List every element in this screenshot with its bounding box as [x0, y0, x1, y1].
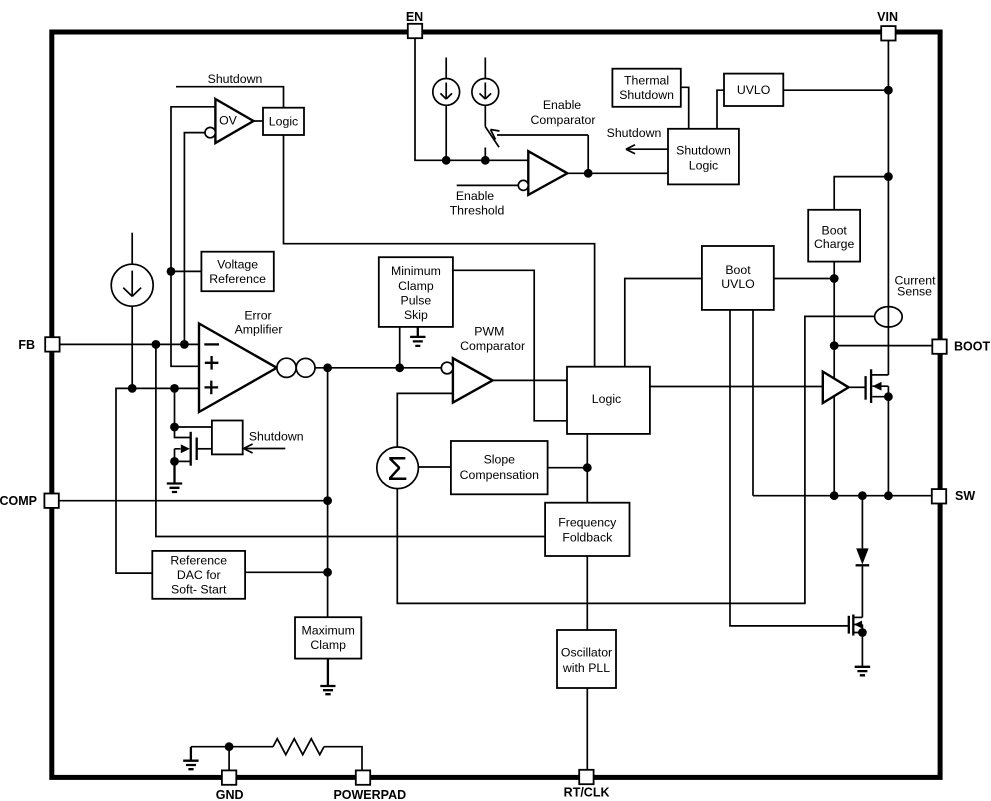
box: main Logic: [567, 367, 650, 434]
wire: current source I1 bottom lead: [131, 306, 133, 388]
svg-text:Error: Error: [244, 309, 271, 323]
summing node (slope compensation adder): [377, 447, 419, 489]
transistor Q3 (low-side FET): [849, 615, 867, 667]
transistor Q1 (soft-start shutdown FET): [170, 388, 212, 465]
node: minimum clamp junction: [395, 363, 404, 372]
wire: main Logic output to gate driver: [650, 386, 823, 388]
node: enable comparator output junction: [584, 169, 593, 178]
box: Minimum Clamp Pulse Skip: [379, 257, 453, 327]
node: VIN-UVLO junction: [884, 86, 893, 95]
ground: GND pin ground: [183, 747, 198, 770]
svg-text:Shutdown: Shutdown: [619, 88, 674, 102]
node: reference junction: [167, 267, 176, 276]
wire: Boot Charge top to VIN rail: [834, 177, 888, 210]
box: Oscillator with PLL: [557, 630, 616, 688]
wire: SW rail: [753, 495, 932, 497]
node: BootUVLO-BootCharge junction: [830, 274, 839, 283]
wire: enable comparator feedback to switch with arrowhead: [497, 134, 588, 136]
wire: UVLO to VIN rail: [783, 89, 888, 91]
wire: Boot UVLO left output down to main Logic top: [625, 279, 702, 367]
node: reference DAC junction: [323, 568, 332, 577]
node: SW junction diode: [858, 491, 867, 500]
ground: shutdown FET ground: [167, 461, 182, 492]
svg-text:Clamp: Clamp: [398, 279, 434, 293]
wire: current source I3 top lead: [484, 58, 486, 79]
svg-text:Enable: Enable: [543, 98, 581, 112]
node: enable switch junction: [481, 156, 490, 165]
wire: switch bottom contact: [484, 148, 486, 161]
svg-text:Slope: Slope: [484, 453, 516, 467]
wire: Boot UVLO right to boot rail: [774, 278, 834, 280]
node: enable current source 1 junction: [442, 156, 451, 165]
node: FB to OV tap: [180, 340, 189, 349]
ground: maximum clamp ground: [320, 659, 335, 695]
svg-text:RT/CLK: RT/CLK: [564, 786, 610, 800]
wire: Frequency Foldback to Oscillator: [586, 556, 588, 630]
error amplifier U1: [199, 324, 277, 413]
wire: main Logic bottom to Frequency Foldback: [586, 434, 588, 503]
wire: shutdown output arrow from Shutdown Logic: [627, 148, 668, 150]
transistor Q2 (high-side power FET): [866, 369, 893, 495]
wire: Boot UVLO bottom to low-side FET gate: [730, 310, 848, 626]
ground: minimum clamp ground: [410, 327, 425, 346]
wire: current source I2 bottom lead: [445, 105, 447, 160]
wire: COMP riser from error amp output to Maximum Clamp: [327, 368, 329, 617]
svg-text:POWERPAD: POWERPAD: [333, 788, 406, 801]
svg-text:with PLL: with PLL: [562, 661, 610, 675]
resistor: GND to POWERPAD: [273, 739, 324, 755]
svg-text:COMP: COMP: [0, 494, 37, 508]
wire: OV logic output down and across to main Logic top: [284, 135, 595, 367]
wire: Slope Compensation to ramp node: [548, 467, 588, 469]
svg-text:Logic: Logic: [592, 392, 621, 406]
box: Frequency Foldback: [545, 503, 629, 556]
node: FB to foldback tap: [152, 340, 161, 349]
svg-text:Sense: Sense: [897, 285, 932, 299]
svg-text:UVLO: UVLO: [737, 83, 771, 97]
wire: resistor to POWERPAD pin: [324, 747, 362, 771]
wire: FB sense down and across to Frequency Foldback: [156, 344, 545, 536]
box: Boot UVLO: [702, 246, 774, 310]
svg-text:UVLO: UVLO: [721, 277, 755, 291]
svg-text:Pulse: Pulse: [401, 294, 432, 308]
ground: low-side FET ground: [855, 667, 870, 676]
wire: Boot Charge bottom rail to SW: [833, 262, 835, 496]
svg-text:Σ: Σ: [387, 450, 407, 487]
wire: Thermal Shutdown to Shutdown Logic: [681, 87, 689, 129]
svg-text:Comparator: Comparator: [531, 113, 596, 127]
logic block (OV logic): [263, 108, 304, 135]
wire: current source I3 lead into switch: [484, 105, 486, 126]
wire: enable comparator output to Shutdown Logic: [567, 172, 668, 174]
svg-text:Boot: Boot: [725, 263, 751, 277]
box: Slope Compensation: [451, 441, 548, 494]
svg-text:Voltage: Voltage: [217, 258, 258, 272]
pin GND: [222, 770, 236, 784]
box: shutdown control block at error amp: [212, 421, 243, 455]
error amplifier output double circle: [277, 358, 296, 377]
svg-text:PWM: PWM: [474, 325, 504, 339]
wire: OV output to logic block: [254, 120, 264, 122]
node: COMP junction: [323, 496, 332, 505]
svg-text:Shutdown: Shutdown: [249, 430, 304, 444]
svg-text:FB: FB: [18, 338, 35, 352]
wire: feedback riser: [587, 135, 589, 173]
diode D1 (freewheel): [856, 496, 870, 618]
svg-text:Clamp: Clamp: [310, 638, 346, 652]
svg-text:DAC for: DAC for: [177, 568, 221, 582]
svg-text:Charge: Charge: [814, 237, 854, 251]
svg-text:Thermal: Thermal: [624, 74, 669, 88]
box: Maximum Clamp: [295, 617, 361, 658]
pin RT/CLK: [579, 770, 593, 784]
box: Boot Charge: [808, 210, 860, 262]
box: Thermal Shutdown: [612, 69, 680, 107]
svg-text:BOOT: BOOT: [954, 340, 990, 354]
PWM comparator U3: [453, 358, 493, 402]
svg-text:Shutdown: Shutdown: [208, 72, 263, 86]
svg-text:Logic: Logic: [689, 159, 718, 173]
node: SW junction source: [884, 491, 893, 500]
node: SW junction left: [830, 491, 839, 500]
pin EN: [408, 24, 422, 38]
wire: Minimum Clamp to error amp output bus: [399, 327, 401, 368]
wire: Boot UVLO bottom to SW rail: [752, 310, 754, 496]
comparator OV: [215, 99, 253, 143]
node: BOOT wire junction: [830, 341, 839, 350]
svg-text:VIN: VIN: [877, 10, 898, 24]
current sense element: [875, 307, 903, 327]
wire: PWM comparator output to Logic: [493, 379, 567, 381]
svg-text:OV: OV: [219, 114, 238, 128]
svg-text:Frequency: Frequency: [558, 516, 617, 530]
enable comparator U2: [528, 151, 567, 195]
wire: summing node to Slope Compensation: [417, 466, 451, 468]
svg-text:Maximum: Maximum: [302, 624, 355, 638]
node: current source junction on soft-start net: [128, 384, 137, 393]
gate driver U4: [823, 372, 849, 403]
wire: COMP pin wire: [59, 500, 328, 502]
node: COMP riser junction: [323, 363, 332, 372]
svg-text:Reference: Reference: [209, 272, 266, 286]
svg-text:Comparator: Comparator: [460, 339, 525, 353]
svg-text:EN: EN: [406, 10, 423, 24]
svg-text:Compensation: Compensation: [460, 468, 539, 482]
wire: Voltage Reference box to reference net: [171, 270, 201, 272]
node: ramp junction: [583, 463, 592, 472]
pin VIN: [881, 26, 895, 40]
node: VIN-BootCharge junction: [884, 172, 893, 181]
svg-text:Logic: Logic: [269, 114, 298, 128]
wire: GND net with resistor to POWERPAD: [228, 747, 230, 771]
box: Shutdown Logic: [668, 129, 739, 185]
switch: hysteresis switch blade: [485, 127, 499, 148]
svg-text:SW: SW: [955, 489, 975, 503]
box: UVLO: [724, 74, 783, 106]
current source I1 (error amp bias): [111, 264, 153, 306]
wire: soft-start net to error amp second + input: [116, 388, 199, 573]
box: Voltage Reference: [201, 252, 273, 292]
wire: UVLO to Shutdown Logic: [717, 90, 724, 129]
svg-text:Skip: Skip: [404, 308, 428, 322]
svg-text:Minimum: Minimum: [391, 264, 441, 278]
wire: current source I1 top lead: [131, 233, 133, 265]
node: shutdown FET junction on soft-start net: [170, 384, 179, 393]
wire: Shutdown signal into OV logic: [176, 87, 284, 108]
pin COMP: [44, 494, 58, 508]
svg-text:Boot: Boot: [822, 224, 848, 238]
wire: shutdown command arrow into block: [245, 448, 286, 450]
node: GND junction: [225, 742, 234, 751]
svg-text:Enable: Enable: [456, 189, 494, 203]
wire: error amp output bus: [315, 367, 441, 369]
wire: current source I2 top lead: [445, 58, 447, 79]
svg-text:Shutdown: Shutdown: [676, 144, 731, 158]
svg-text:Shutdown: Shutdown: [607, 126, 662, 140]
wire: summing node to PWM comparator + input: [397, 393, 453, 447]
wire: Oscillator to RT/CLK pin: [586, 688, 588, 770]
svg-text:Oscillator: Oscillator: [561, 646, 612, 660]
wire: Minimum Clamp to main Logic: [453, 270, 567, 421]
wire: gate driver output to high-side gate: [849, 386, 865, 388]
pin POWERPAD: [356, 770, 370, 784]
wire: Reference DAC output: [245, 571, 328, 573]
wire: BOOT pin wire: [834, 345, 932, 347]
svg-text:Foldback: Foldback: [562, 531, 613, 545]
wire: EN pin down and across to enable comparator + input: [415, 38, 528, 160]
svg-text:GND: GND: [216, 788, 244, 801]
pin BOOT: [932, 339, 946, 353]
pin FB: [45, 337, 59, 351]
wire: FB pin to error amp inverting input: [60, 343, 199, 345]
svg-text:Reference: Reference: [170, 554, 227, 568]
box: Reference DAC for Soft-Start: [152, 551, 245, 599]
svg-text:Soft- Start: Soft- Start: [171, 583, 227, 597]
svg-text:Amplifier: Amplifier: [235, 323, 283, 337]
current source I3 (enable hysteresis): [472, 79, 499, 106]
pin SW: [932, 489, 946, 503]
wire: current sense output to slope summing node: [397, 316, 875, 603]
wire: voltage reference net (OV input / error amp + input): [171, 107, 215, 367]
current source I2 (enable pullup): [433, 79, 460, 106]
wire: enable threshold input: [457, 184, 519, 186]
wire: OV inverting input from FB: [184, 133, 205, 345]
svg-text:Threshold: Threshold: [450, 204, 505, 218]
wire: VIN rail down to high-side FET drain: [887, 40, 889, 375]
